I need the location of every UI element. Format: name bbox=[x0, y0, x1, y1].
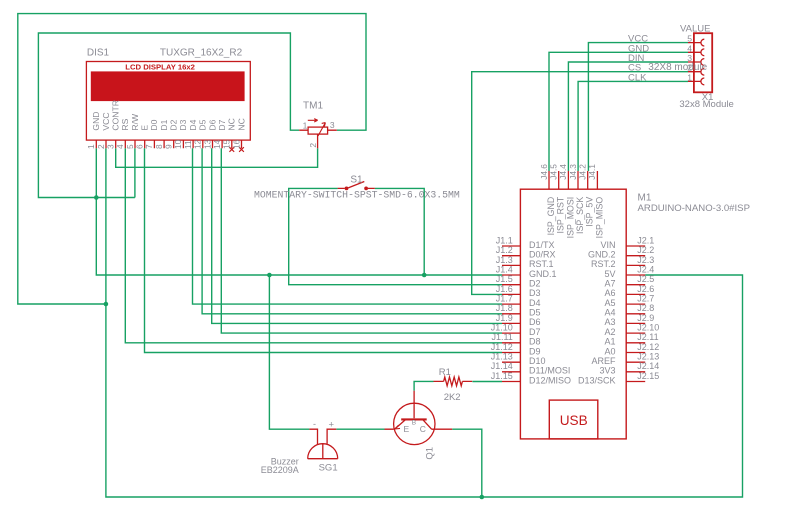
svg-text:D2: D2 bbox=[529, 279, 541, 289]
svg-text:J4.6: J4.6 bbox=[539, 164, 549, 180]
svg-text:J2.14: J2.14 bbox=[637, 361, 659, 371]
svg-text:A4: A4 bbox=[604, 308, 615, 318]
svg-text:J2.13: J2.13 bbox=[637, 352, 659, 362]
svg-text:J1.4: J1.4 bbox=[496, 264, 513, 274]
svg-text:GND: GND bbox=[91, 111, 101, 130]
svg-text:J1.7: J1.7 bbox=[496, 294, 513, 304]
svg-text:NC: NC bbox=[236, 118, 246, 130]
svg-text:2K2: 2K2 bbox=[444, 392, 461, 403]
svg-text:EB2209A: EB2209A bbox=[261, 465, 299, 475]
svg-text:C: C bbox=[420, 424, 426, 434]
svg-text:5: 5 bbox=[125, 144, 135, 149]
svg-text:J2.6: J2.6 bbox=[637, 284, 654, 294]
svg-text:J2.11: J2.11 bbox=[637, 332, 658, 342]
svg-text:J4.4: J4.4 bbox=[558, 164, 568, 180]
svg-text:NC: NC bbox=[227, 118, 237, 130]
svg-text:M1: M1 bbox=[638, 192, 652, 203]
svg-text:ARDUINO-NANO-3.0#ISP: ARDUINO-NANO-3.0#ISP bbox=[638, 203, 750, 214]
svg-text:+: + bbox=[329, 420, 335, 431]
svg-text:D0: D0 bbox=[149, 119, 159, 130]
svg-text:-: - bbox=[313, 419, 316, 429]
svg-text:J2.15: J2.15 bbox=[637, 371, 659, 381]
svg-text:MOMENTARY-SWITCH-SPST-SMD-6.0X: MOMENTARY-SWITCH-SPST-SMD-6.0X3.5MM bbox=[254, 189, 460, 200]
svg-text:A6: A6 bbox=[604, 288, 615, 298]
svg-text:D0/RX: D0/RX bbox=[529, 250, 556, 260]
svg-text:E: E bbox=[140, 125, 150, 131]
svg-text:D3: D3 bbox=[178, 119, 188, 130]
svg-text:J2.4: J2.4 bbox=[637, 264, 654, 274]
svg-text:4: 4 bbox=[687, 43, 692, 53]
svg-text:J2.9: J2.9 bbox=[637, 313, 654, 323]
svg-text:ISP_5V: ISP_5V bbox=[585, 197, 595, 227]
svg-text:32x8 Module: 32x8 Module bbox=[679, 99, 733, 110]
svg-text:5: 5 bbox=[687, 34, 692, 44]
svg-text:A2: A2 bbox=[604, 327, 615, 337]
svg-text:LCD DISPLAY 16x2: LCD DISPLAY 16x2 bbox=[125, 63, 195, 72]
svg-text:10: 10 bbox=[173, 139, 183, 149]
svg-text:J2.7: J2.7 bbox=[637, 294, 654, 304]
svg-text:J1.6: J1.6 bbox=[496, 284, 513, 294]
svg-text:J1.13: J1.13 bbox=[491, 352, 513, 362]
svg-text:Q1: Q1 bbox=[424, 447, 435, 460]
svg-text:J4.3: J4.3 bbox=[568, 164, 578, 180]
svg-text:R/W: R/W bbox=[130, 113, 140, 131]
svg-text:RST.1: RST.1 bbox=[529, 259, 554, 269]
svg-text:B: B bbox=[412, 419, 416, 426]
svg-text:1: 1 bbox=[86, 144, 96, 149]
svg-text:J1.1: J1.1 bbox=[496, 235, 513, 245]
svg-text:7: 7 bbox=[144, 144, 154, 149]
svg-text:12: 12 bbox=[193, 139, 203, 149]
svg-text:32X8 module: 32X8 module bbox=[648, 62, 707, 73]
svg-text:J2.3: J2.3 bbox=[637, 255, 654, 265]
svg-text:D7: D7 bbox=[217, 119, 227, 130]
svg-text:J1.15: J1.15 bbox=[491, 371, 513, 381]
svg-text:D9: D9 bbox=[529, 346, 541, 356]
svg-text:J2.5: J2.5 bbox=[637, 274, 654, 284]
svg-text:11: 11 bbox=[183, 140, 193, 149]
svg-text:D5: D5 bbox=[198, 119, 208, 130]
svg-text:DIS1: DIS1 bbox=[87, 47, 110, 58]
svg-text:3V3: 3V3 bbox=[599, 366, 615, 376]
svg-text:J1.10: J1.10 bbox=[491, 323, 513, 333]
svg-text:E: E bbox=[404, 424, 410, 434]
svg-text:ISP_RST: ISP_RST bbox=[556, 196, 566, 233]
svg-text:J2.10: J2.10 bbox=[637, 323, 659, 333]
svg-text:J1.9: J1.9 bbox=[496, 313, 513, 323]
svg-text:1: 1 bbox=[303, 121, 308, 131]
svg-text:D3: D3 bbox=[529, 288, 541, 298]
svg-text:2: 2 bbox=[308, 143, 318, 148]
svg-text:J2.8: J2.8 bbox=[637, 303, 654, 313]
svg-text:J4.2: J4.2 bbox=[578, 164, 588, 180]
svg-text:VCC: VCC bbox=[101, 112, 111, 130]
svg-text:J2.12: J2.12 bbox=[637, 342, 659, 352]
svg-text:J1.11: J1.11 bbox=[491, 332, 512, 342]
svg-text:D1/TX: D1/TX bbox=[529, 240, 555, 250]
svg-text:S1: S1 bbox=[350, 174, 363, 185]
svg-text:5V: 5V bbox=[604, 269, 615, 279]
svg-text:D2: D2 bbox=[169, 119, 179, 130]
svg-text:D8: D8 bbox=[529, 337, 541, 347]
svg-text:A5: A5 bbox=[604, 298, 615, 308]
svg-text:J1.2: J1.2 bbox=[496, 245, 513, 255]
svg-text:D1: D1 bbox=[159, 119, 169, 130]
svg-text:2: 2 bbox=[96, 144, 106, 149]
svg-text:RST.2: RST.2 bbox=[591, 259, 616, 269]
svg-text:J1.5: J1.5 bbox=[496, 274, 513, 284]
svg-text:GND.2: GND.2 bbox=[588, 250, 616, 260]
svg-text:J4.1: J4.1 bbox=[587, 164, 597, 180]
svg-text:J1.3: J1.3 bbox=[496, 255, 513, 265]
svg-text:AREF: AREF bbox=[591, 356, 616, 366]
svg-text:RS: RS bbox=[120, 118, 130, 130]
svg-text:GND.1: GND.1 bbox=[529, 269, 557, 279]
svg-text:D11/MOSI: D11/MOSI bbox=[529, 366, 570, 376]
svg-text:TUXGR_16X2_R2: TUXGR_16X2_R2 bbox=[160, 47, 243, 58]
svg-text:4: 4 bbox=[115, 144, 125, 149]
svg-text:D7: D7 bbox=[529, 327, 541, 337]
svg-text:J2.2: J2.2 bbox=[637, 245, 654, 255]
svg-text:A7: A7 bbox=[604, 279, 615, 289]
svg-text:J2.1: J2.1 bbox=[637, 235, 654, 245]
svg-text:D6: D6 bbox=[529, 317, 541, 327]
svg-text:ISP_MISO: ISP_MISO bbox=[594, 197, 604, 239]
svg-text:J1.12: J1.12 bbox=[491, 342, 513, 352]
svg-text:TM1: TM1 bbox=[303, 101, 323, 112]
svg-text:CLK: CLK bbox=[628, 72, 647, 83]
svg-text:D4: D4 bbox=[529, 298, 541, 308]
svg-text:D10: D10 bbox=[529, 356, 546, 366]
svg-text:1: 1 bbox=[687, 72, 692, 82]
svg-text:9: 9 bbox=[164, 144, 174, 149]
svg-text:15: 15 bbox=[222, 139, 232, 149]
svg-text:D6: D6 bbox=[207, 119, 217, 130]
svg-text:SG1: SG1 bbox=[319, 462, 338, 473]
svg-text:D5: D5 bbox=[529, 308, 541, 318]
svg-text:A1: A1 bbox=[604, 337, 615, 347]
svg-text:J1.8: J1.8 bbox=[496, 303, 513, 313]
svg-text:R1: R1 bbox=[439, 367, 451, 378]
svg-text:3: 3 bbox=[106, 144, 116, 149]
svg-text:J1.14: J1.14 bbox=[491, 361, 513, 371]
svg-text:D13/SCK: D13/SCK bbox=[578, 375, 616, 385]
svg-text:8: 8 bbox=[154, 144, 164, 149]
svg-text:VALUE: VALUE bbox=[680, 23, 710, 34]
svg-text:16: 16 bbox=[231, 139, 241, 149]
svg-text:3: 3 bbox=[330, 120, 335, 130]
svg-text:A3: A3 bbox=[604, 317, 615, 327]
svg-text:ISP_SCK: ISP_SCK bbox=[575, 197, 585, 234]
svg-text:D4: D4 bbox=[188, 119, 198, 130]
svg-text:13: 13 bbox=[202, 139, 212, 149]
svg-text:VIN: VIN bbox=[600, 240, 615, 250]
svg-text:6: 6 bbox=[135, 144, 145, 149]
svg-text:14: 14 bbox=[212, 139, 222, 149]
svg-text:ISP_MOSI: ISP_MOSI bbox=[565, 197, 575, 239]
svg-text:A0: A0 bbox=[604, 346, 615, 356]
svg-text:D12/MISO: D12/MISO bbox=[529, 375, 571, 385]
svg-text:USB: USB bbox=[560, 413, 588, 428]
svg-text:ISP_GND: ISP_GND bbox=[546, 197, 556, 236]
svg-text:CONTR: CONTR bbox=[111, 100, 121, 131]
svg-text:J4.5: J4.5 bbox=[549, 164, 559, 180]
